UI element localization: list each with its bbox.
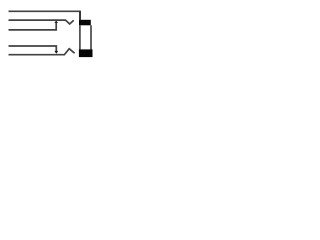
wire L4 break contact, bends down toward L5 <box>9 46 57 51</box>
bore right wall <box>90 25 92 50</box>
wire L5 tip-spring contact with hump flick <box>9 49 75 55</box>
wire drop from L1 corner to sleeve block <box>79 11 81 20</box>
sleeve upper black block <box>79 20 91 26</box>
wire L2 ring contact with V flick <box>9 20 74 24</box>
down arrowhead touching L5 <box>54 51 58 54</box>
wire L3 break contact, bends up toward L2 <box>9 23 57 30</box>
jack socket schematic <box>0 0 100 65</box>
up arrowhead touching L2 <box>54 21 58 23</box>
bore left wall <box>79 25 81 50</box>
wire L1 tip contact line <box>9 10 81 12</box>
plug tip black block <box>79 49 93 57</box>
